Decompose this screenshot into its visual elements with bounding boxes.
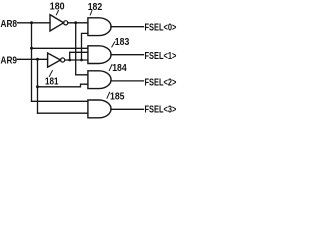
wire AR8 input to inverter 180 [18,22,51,24]
AND gate 184 body [88,71,111,89]
wire FSEL1 output [111,54,144,56]
inverter U180 bubble [64,21,68,25]
junction AR9 to gate 184 [36,85,39,88]
svg-text:180: 180 [50,1,65,12]
inverter U181 bubble [61,58,65,62]
leader label 180 [56,10,58,14]
leader label 182 [90,11,92,15]
wire inverter 180 output to gate 182 [68,22,88,24]
wire FSEL0 output [111,26,144,28]
node AR8 [0,0,1,1]
svg-text:AR9: AR9 [1,55,18,66]
svg-text:185: 185 [110,92,125,103]
wire AR9 branch toward gate 184 [38,84,88,87]
svg-text:AR8: AR8 [1,19,18,30]
svg-text:FSEL<0>: FSEL<0> [145,23,177,34]
junction inverted AR9 jog [68,59,71,62]
svg-text:184: 184 [112,63,127,74]
wire AR9 vertical bus [37,59,39,113]
junction AR9 branch [36,58,39,61]
wire jog up into gate 183 [70,52,88,60]
inverter U181 triangle [48,53,61,67]
junction AR8 to gate 183 [30,47,33,50]
wire AR8 to gate 185 top input [32,100,88,102]
wire inverted AR8 down to gate 184 top input [76,23,88,75]
wire inverted AR9 up to gate 182 bottom input [82,33,88,60]
AND gate 182 body [88,18,111,36]
AND gate 185 body [88,100,111,118]
junction AR8 branch [30,21,33,24]
node AR9 [0,0,1,1]
svg-text:183: 183 [115,37,130,48]
svg-text:FSEL<1>: FSEL<1> [145,51,177,62]
wire inverter 181 output to gate 183 [65,59,88,61]
junction inverted AR9 to gate 182 [80,59,83,62]
wire FSEL3 output [111,108,144,110]
svg-text:182: 182 [88,2,103,13]
leader label 185 [107,92,110,98]
wire AR8 to gate 183 input [32,47,88,49]
wire FSEL2 output [111,80,144,82]
leader label 181 [49,71,52,77]
wire AR9 to gate 185 bottom input [38,112,88,114]
svg-text:181: 181 [45,76,59,87]
svg-text:FSEL<3>: FSEL<3> [145,105,177,116]
junction inverted AR8 [74,21,77,24]
svg-text:FSEL<2>: FSEL<2> [145,77,177,88]
wire AR8 vertical bus [31,23,33,102]
inverter U180 triangle [50,15,64,31]
leader label 184 [109,65,112,71]
AND gate 183 body [88,46,111,64]
leader label 183 [112,42,115,47]
wire AR9 input to inverter 181 [18,58,48,60]
